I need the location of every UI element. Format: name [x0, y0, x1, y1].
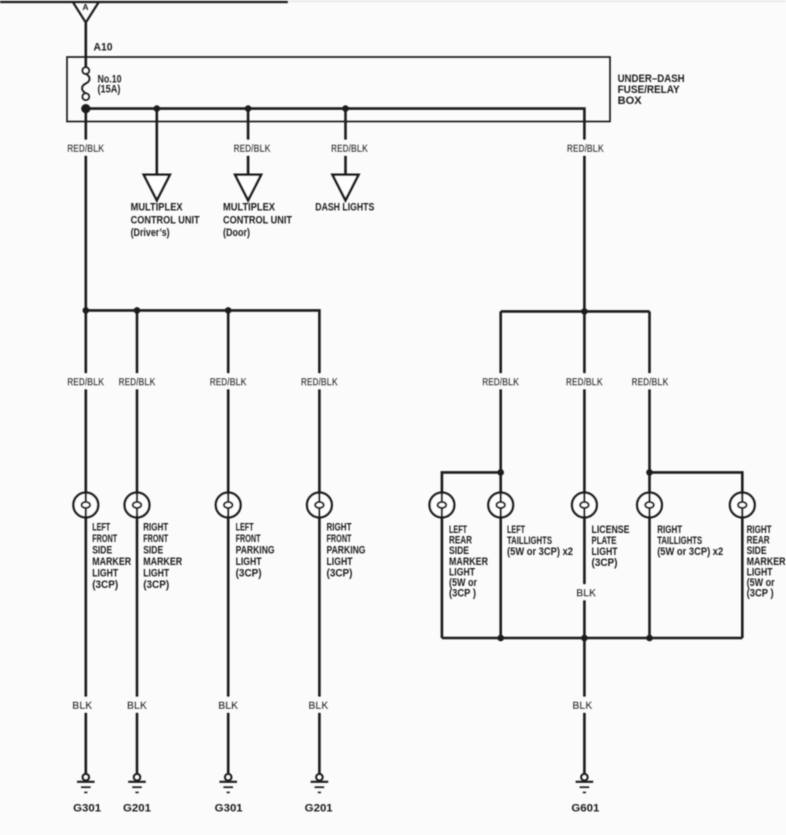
label RED/BLK (left front parking) [207, 373, 249, 389]
label LEFT FRONT SIDE MARKER LIGHT (3CP) [92, 522, 131, 592]
wire: branch to right taillights bulb [648, 311, 651, 492]
svg-text:BLK: BLK [127, 700, 147, 712]
svg-text:LEFT: LEFT [92, 522, 110, 534]
svg-text:MULTIPLEX: MULTIPLEX [223, 202, 276, 214]
svg-text:LIGHT: LIGHT [92, 568, 118, 580]
wire: bus to multiplex control unit driver's [156, 109, 159, 174]
bulb license plate light [572, 493, 597, 518]
junction: left branch / right front side marker [134, 307, 141, 314]
svg-text:FRONT: FRONT [143, 533, 168, 545]
svg-text:RED/BLK: RED/BLK [210, 376, 247, 388]
wire: branch to left front parking bulb [227, 310, 230, 492]
svg-text:PARKING: PARKING [236, 545, 275, 557]
svg-text:(3CP ): (3CP ) [747, 588, 774, 600]
svg-text:RED/BLK: RED/BLK [301, 376, 338, 388]
svg-text:FRONT: FRONT [327, 533, 352, 545]
wire: left rear side marker to join [441, 517, 444, 638]
svg-text:G301: G301 [73, 802, 101, 814]
svg-text:G201: G201 [305, 802, 333, 814]
label LICENSE PLATE LIGHT (3CP) [592, 524, 630, 569]
wire: right front parking to ground G201 [318, 517, 321, 773]
label RED/BLK (license plate) [563, 373, 605, 389]
junction: join / ground wire [581, 635, 588, 642]
bulb left front parking light [216, 493, 241, 518]
svg-text:BLK: BLK [308, 700, 328, 712]
svg-text:BLK: BLK [218, 700, 238, 712]
wire: lower left branch to left rear side marker [442, 472, 501, 492]
svg-text:(5W or 3CP) x2: (5W or 3CP) x2 [657, 546, 723, 558]
label BLK (left front side marker) [70, 697, 95, 713]
svg-text:RED/BLK: RED/BLK [482, 376, 519, 388]
svg-text:(3CP): (3CP) [143, 579, 169, 591]
wire: right front side marker to ground G201 [136, 517, 139, 773]
wire: bus to multiplex control unit door [247, 109, 250, 174]
svg-text:PARKING: PARKING [327, 545, 366, 557]
ground symbol G601 [576, 774, 594, 793]
junction: left branch / left front side marker [83, 307, 90, 314]
under-dash fuse/relay box [67, 57, 610, 122]
label No.10 (15A) [98, 74, 122, 96]
bulb left rear side marker light [430, 493, 455, 518]
junction: bus / dash lights [342, 105, 349, 112]
junction: join / right taillights [646, 635, 653, 642]
label RED/BLK (left taillights) [480, 373, 522, 389]
right branch wire [501, 310, 650, 313]
arrow terminal to multiplex control unit (driver's) [144, 175, 170, 201]
svg-text:SIDE: SIDE [92, 545, 112, 557]
svg-text:RED/BLK: RED/BLK [119, 376, 156, 388]
label LEFT REAR SIDE MARKER LIGHT (5W or 3CP) [449, 524, 488, 600]
svg-text:(5W or 3CP) x2: (5W or 3CP) x2 [507, 546, 573, 558]
wire: join to ground G601 [583, 638, 586, 774]
bottom joining wire (right cluster grounds) [442, 637, 742, 640]
svg-text:RED/BLK: RED/BLK [632, 376, 669, 388]
svg-text:FRONT: FRONT [236, 533, 261, 545]
wire: bus to dash lights [344, 109, 347, 174]
bulb right front parking light [307, 493, 332, 518]
svg-text:LIGHT: LIGHT [143, 568, 169, 580]
label UNDER-DASH FUSE/RELAY BOX [618, 73, 685, 107]
svg-text:RED/BLK: RED/BLK [331, 143, 368, 155]
bus wire: fuse output across box to right feed [86, 109, 585, 312]
wire: branch to right front side marker bulb [136, 310, 139, 492]
svg-text:(Door): (Door) [223, 227, 250, 239]
svg-text:(3CP): (3CP) [92, 579, 118, 591]
ground symbol G301 [219, 774, 237, 793]
bulb right rear side marker light [730, 493, 755, 518]
svg-text:RED/BLK: RED/BLK [567, 143, 604, 155]
label MULTIPLEX CONTROL UNIT (Door) [223, 202, 292, 240]
svg-text:G601: G601 [571, 802, 599, 814]
svg-text:BLK: BLK [576, 587, 596, 599]
ground symbol G201 [128, 774, 146, 793]
wire: left taillights to join [499, 517, 502, 638]
connector A (power feed from fuse box) [73, 2, 100, 23]
wire: right rear side marker to join [741, 517, 744, 638]
svg-text:CONTROL UNIT: CONTROL UNIT [223, 214, 292, 226]
wire: lower right branch to right rear side marker [650, 472, 743, 492]
svg-text:MARKER: MARKER [92, 556, 131, 568]
svg-text:MARKER: MARKER [143, 556, 182, 568]
svg-text:LIGHT: LIGHT [327, 556, 353, 568]
junction: bus / multiplex control unit door [245, 105, 252, 112]
label BLK (ground G601 wire) [570, 697, 595, 713]
wire: branch to left taillights bulb [499, 311, 502, 492]
svg-text:CONTROL UNIT: CONTROL UNIT [131, 214, 200, 226]
label BLK (left front parking) [216, 697, 241, 713]
svg-text:BLK: BLK [72, 700, 92, 712]
label RED/BLK dash lights feed [328, 140, 370, 156]
svg-text:LIGHT: LIGHT [236, 556, 262, 568]
label RIGHT TAILLIGHTS (5W or 3CP) x2 [657, 524, 723, 558]
svg-text:BLK: BLK [572, 700, 592, 712]
svg-text:(3CP ): (3CP ) [449, 588, 476, 600]
junction: left branch / left front parking [225, 307, 232, 314]
svg-text:G201: G201 [123, 802, 151, 814]
wire: connector A to fuse No.10 [85, 23, 88, 68]
ground symbol G201 [311, 774, 329, 793]
arrow terminal to dash lights [333, 175, 359, 201]
junction: bus / multiplex control unit driver's [154, 105, 161, 112]
bulb left taillights [488, 493, 513, 518]
label RIGHT REAR SIDE MARKER LIGHT (5W or 3CP) [747, 524, 786, 600]
svg-text:(3CP): (3CP) [236, 568, 262, 580]
left branch wire [86, 310, 320, 492]
label RED/BLK right feed [564, 140, 606, 156]
label RIGHT FRONT SIDE MARKER LIGHT (3CP) [143, 522, 182, 592]
fuse No.10 (15A) [82, 67, 90, 100]
svg-text:(Driver’s): (Driver’s) [131, 227, 170, 239]
junction: left taillights / left rear side marker branch [497, 469, 504, 476]
wire: license plate to join (BLK) [583, 517, 586, 638]
label BLK (right front parking) [306, 697, 331, 713]
svg-text:SIDE: SIDE [143, 545, 163, 557]
label RED/BLK left feed [65, 140, 107, 156]
svg-text:(3CP): (3CP) [327, 568, 353, 580]
svg-text:RIGHT: RIGHT [327, 522, 352, 534]
wire: left front side marker to ground G301 [85, 517, 88, 773]
junction: join / left taillights [497, 635, 504, 642]
svg-text:A: A [82, 2, 88, 12]
bulb right taillights [637, 493, 662, 518]
svg-text:RED/BLK: RED/BLK [67, 376, 104, 388]
wire: left front parking to ground G301 [227, 517, 230, 773]
wire: branch to left front side marker bulb [85, 310, 88, 492]
svg-text:RIGHT: RIGHT [143, 522, 168, 534]
label RED/BLK (left front side marker) [65, 373, 107, 389]
label LEFT FRONT PARKING LIGHT (3CP) [236, 522, 275, 580]
junction: right taillights / right rear side marker branch [646, 469, 653, 476]
svg-text:A10: A10 [94, 42, 113, 54]
svg-text:RED/BLK: RED/BLK [566, 376, 603, 388]
wire: right taillights to join [648, 517, 651, 638]
svg-text:RED/BLK: RED/BLK [67, 143, 104, 155]
bulb right front side marker light [125, 493, 150, 518]
label RED/BLK (right front parking) [298, 373, 340, 389]
label RED/BLK (right front side marker) [116, 373, 158, 389]
ground symbol G301 [77, 774, 95, 793]
svg-text:(15A): (15A) [98, 84, 121, 96]
junction: fuse output to bus [81, 104, 90, 113]
arrow terminal to multiplex control unit (door) [235, 175, 261, 201]
svg-text:BOX: BOX [618, 95, 643, 107]
svg-text:FRONT: FRONT [92, 533, 117, 545]
svg-text:RED/BLK: RED/BLK [234, 143, 271, 155]
label LEFT TAILLIGHTS (5W or 3CP) x2 [507, 524, 573, 558]
label BLK (license plate) [574, 584, 599, 600]
bulb left front side marker light [73, 493, 98, 518]
svg-text:MULTIPLEX: MULTIPLEX [131, 202, 184, 214]
svg-text:LEFT: LEFT [236, 522, 254, 534]
wire: left main feed (RED/BLK) [85, 109, 88, 311]
svg-text:(3CP): (3CP) [592, 557, 618, 569]
label RED/BLK (right taillights) [629, 373, 671, 389]
svg-text:DASH LIGHTS: DASH LIGHTS [315, 202, 374, 214]
svg-text:G301: G301 [215, 802, 243, 814]
junction: right feed / right branch [581, 308, 588, 315]
wire: branch to license plate bulb [583, 311, 586, 492]
label RIGHT FRONT PARKING LIGHT (3CP) [327, 522, 366, 580]
label BLK (right front side marker) [124, 697, 149, 713]
label RED/BLK multiplex door feed [231, 140, 273, 156]
label MULTIPLEX CONTROL UNIT (Driver's) [131, 202, 200, 240]
